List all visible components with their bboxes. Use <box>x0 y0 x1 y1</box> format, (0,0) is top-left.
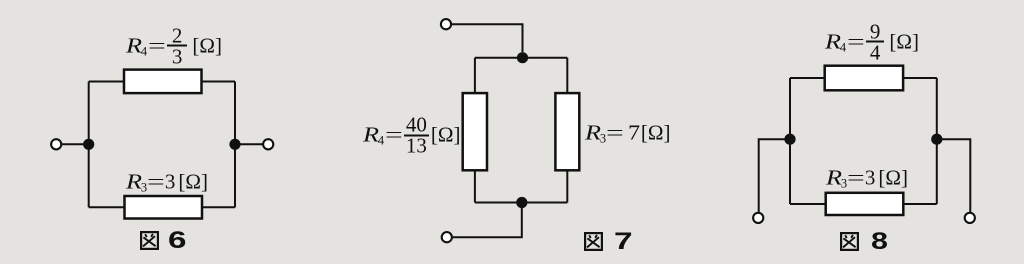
wire: fig8 bottom rail left segment <box>790 203 826 205</box>
wire: fig7 left branch lower <box>474 170 476 202</box>
wire: fig7 top terminal lead <box>452 24 523 52</box>
wire: fig6 top rail left segment <box>89 81 124 83</box>
node: fig7 bottom junction dot <box>516 197 527 208</box>
wire: fig7 right branch upper <box>566 58 568 93</box>
caption: figure 8 <box>840 232 884 251</box>
label: R3 value (fig8) <box>826 168 908 189</box>
wire: fig8 right vertical <box>936 78 938 204</box>
wire: fig7 left branch upper <box>474 58 476 93</box>
terminal: fig7 top open circle <box>441 19 451 29</box>
node: fig7 top junction dot <box>517 52 528 63</box>
resistor R4 (fig8) <box>825 66 903 91</box>
terminal: fig6 left open circle <box>51 139 61 149</box>
wire: fig6 right vertical <box>234 82 236 208</box>
label: R3 value (fig7) <box>585 123 671 144</box>
node: fig8 right junction dot <box>931 134 942 145</box>
wire: fig6 right terminal stub <box>235 143 263 145</box>
terminal: fig8 left open circle <box>753 213 763 223</box>
wire: fig6 left terminal stub <box>61 143 89 145</box>
node: fig6 right junction dot <box>229 139 240 150</box>
wire: fig7 top branch rail <box>475 57 567 59</box>
wire: fig7 right branch lower <box>566 170 568 202</box>
wire: fig6 bottom rail left segment <box>89 206 125 208</box>
wire: fig6 bottom rail right segment <box>202 206 235 208</box>
terminal: fig8 right open circle <box>965 213 975 223</box>
label: R4 value (fig7) <box>363 118 461 153</box>
wire: fig8 right terminal lead <box>937 139 971 212</box>
wire: fig8 bottom rail right segment <box>903 203 937 205</box>
label: R4 value (fig8) <box>825 24 919 59</box>
wire: fig6 top rail right segment <box>202 81 236 83</box>
label: R4 value (fig6) <box>126 28 222 63</box>
resistor R4 (fig6) <box>124 70 202 94</box>
resistor R3 (fig8) <box>826 193 904 215</box>
wire: fig7 bottom branch rail <box>475 202 567 204</box>
resistor R3 (fig7) <box>555 93 579 170</box>
resistor R3 (fig6) <box>125 196 203 219</box>
wire: fig8 top rail left segment <box>790 77 825 79</box>
wire: fig8 top rail right segment <box>903 77 937 79</box>
resistor R4 (fig7) <box>463 93 487 170</box>
node: fig6 left junction dot <box>83 139 94 150</box>
caption: figure 6 <box>140 231 181 250</box>
wire: fig8 left vertical <box>789 78 791 204</box>
terminal: fig6 right open circle <box>263 139 273 149</box>
wire: fig8 left terminal lead <box>759 139 790 212</box>
terminal: fig7 bottom open circle <box>442 232 452 242</box>
node: fig8 left junction dot <box>784 134 795 145</box>
wire: fig7 bottom terminal lead <box>453 203 522 238</box>
caption: figure 7 <box>584 232 627 251</box>
label: R3 value (fig6) <box>126 171 208 192</box>
wire: fig6 left vertical <box>88 82 90 208</box>
